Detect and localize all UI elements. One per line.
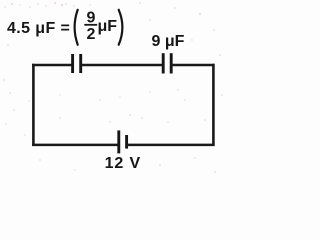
wire: left vertical side of loop xyxy=(32,64,35,146)
right parenthesis of formula xyxy=(119,10,123,45)
svg-text:9: 9 xyxy=(87,9,96,26)
svg-text:μF: μF xyxy=(98,18,118,35)
fraction bar xyxy=(84,24,97,26)
svg-text:12 V: 12 V xyxy=(105,155,142,172)
paper background xyxy=(0,0,227,180)
wire: top-right segment from C2 to corner xyxy=(171,64,214,67)
wire: top-middle segment between C1 and C2 xyxy=(81,64,164,67)
capacitor C2 (9 uF), right plate xyxy=(170,53,173,73)
svg-text:4.5 μF =: 4.5 μF = xyxy=(7,20,70,37)
svg-text:9 μF: 9 μF xyxy=(152,33,185,50)
capacitor C1 (4.5 uF equivalent), right plate xyxy=(79,54,82,73)
battery B1 (12 V), long plate xyxy=(117,130,120,153)
capacitor C1 (4.5 uF equivalent), left plate xyxy=(71,54,74,73)
wire: top-left segment to capacitor C1 xyxy=(32,64,73,67)
wire: right vertical side of loop xyxy=(212,64,215,146)
capacitor C2 (9 uF), left plate xyxy=(162,53,165,73)
svg-text:2: 2 xyxy=(87,26,96,43)
wire: bottom-left segment to battery xyxy=(32,144,119,147)
battery B1 (12 V), short plate xyxy=(125,135,128,149)
left parenthesis of formula xyxy=(75,10,78,45)
wire: bottom-right segment from battery to corner xyxy=(127,144,215,147)
